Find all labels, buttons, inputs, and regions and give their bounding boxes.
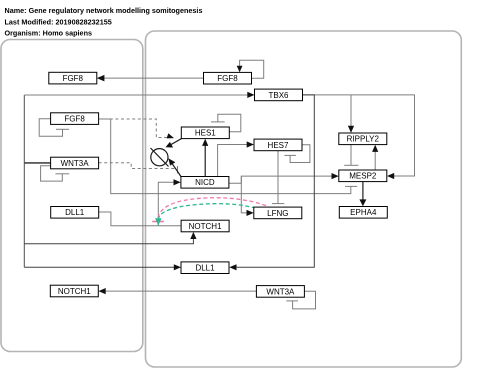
svg-text:DLL1: DLL1: [195, 264, 215, 273]
wire NICD to LFNG: [241, 176, 253, 216]
svg-text:FGF8: FGF8: [64, 115, 85, 124]
wire HES7 inhibition of LFNG: [272, 151, 284, 204]
title text Organism: [5, 29, 93, 38]
svg-text:Organism: Homo sapiens: Organism: Homo sapiens: [5, 29, 93, 38]
wire trunk to NOTCH1 bottom: [24, 232, 196, 244]
gene box FGF8 top-left: [49, 72, 97, 84]
svg-text:RIPPLY2: RIPPLY2: [347, 135, 380, 144]
wire NICD to HES1: [202, 139, 208, 177]
gene box EPHA4: [339, 207, 387, 219]
svg-text:HES7: HES7: [268, 141, 289, 150]
wire DLL1(left) to NOTCH1: [99, 212, 181, 226]
wire LFNG pink dashed inhibition: [152, 198, 266, 222]
gene box HES1: [181, 127, 229, 139]
wire MESP2 to EPHA4: [359, 182, 366, 207]
svg-text:NOTCH1: NOTCH1: [58, 287, 91, 296]
svg-text:WNT3A: WNT3A: [61, 159, 90, 168]
wire WNT3A(left) trunk vertical: [24, 95, 50, 267]
wire NICD to HES7: [218, 141, 254, 176]
compartment right (cell): [146, 31, 462, 367]
wire MESP2 to RIPPLY2: [372, 145, 378, 170]
gene box FGF8 top-middle: [204, 72, 252, 84]
wire HES7 self-inhibition loop: [284, 145, 310, 163]
compartment left (presomitic mesoderm): [1, 40, 143, 352]
wire RIPPLY2 inhibition of MESP2: [344, 145, 358, 166]
svg-text:EPHA4: EPHA4: [350, 208, 377, 217]
wire FGF8(mid) to FGF8(top-left): [97, 75, 204, 82]
gene box NOTCH1 bottom-left: [50, 285, 98, 297]
wire WNT3A(bottom) self-inhibition loop: [286, 291, 315, 309]
wire HES1 self-inhibition loop: [211, 114, 241, 132]
gene box LFNG: [254, 207, 302, 219]
wire TBX6 to DLL1: [229, 95, 314, 271]
degradation circle: [151, 148, 169, 167]
svg-text:NICD: NICD: [195, 178, 215, 187]
svg-text:LFNG: LFNG: [267, 209, 288, 218]
svg-text:HES1: HES1: [195, 129, 216, 138]
gene box MESP2: [339, 170, 387, 182]
svg-text:MESP2: MESP2: [349, 172, 377, 181]
gene box WNT3A left: [51, 157, 99, 169]
svg-text:WNT3A: WNT3A: [266, 287, 295, 296]
wire FGF8(left) long inhibition to MESP2: [99, 119, 358, 194]
wire NICD to MESP2: [229, 173, 339, 183]
gene box HES7: [254, 139, 302, 151]
svg-text:DLL1: DLL1: [65, 208, 85, 217]
gene box RIPPLY2: [339, 133, 387, 145]
wire WNT3A(left) dashed inhibition of NICD-degradation edge: [99, 163, 178, 174]
title text Name: [5, 6, 203, 15]
svg-text:TBX6: TBX6: [268, 91, 289, 100]
svg-text:Name: Gene regulatory network: Name: Gene regulatory network modelling …: [5, 6, 203, 15]
svg-text:FGF8: FGF8: [217, 74, 238, 83]
wire NICD to degradation: [168, 158, 181, 176]
wire anchor to NICD: [158, 179, 180, 226]
wire WNT3A(bottom) to NOTCH1(bottom-left): [99, 288, 257, 294]
gene box NOTCH1 middle: [181, 220, 229, 232]
gene box DLL1 left: [51, 207, 99, 219]
wire WNT3A(left) self-inhibition loop: [41, 166, 70, 181]
gene box DLL1 bottom: [181, 262, 229, 274]
wire trunk to DLL1 left: [24, 264, 181, 270]
svg-text:Last Modified: 20190828232155: Last Modified: 20190828232155: [5, 17, 112, 26]
wire FGF8(left) self-inhibition loop: [39, 119, 69, 137]
title text Last Modified: [5, 17, 112, 26]
wire TBX6 to RIPPLY2: [348, 95, 354, 133]
wire LFNG green dashed stimulation: [155, 204, 262, 226]
gene box NICD: [181, 177, 229, 189]
gene box WNT3A bottom: [256, 286, 304, 298]
wire FGF8(mid) self-activation loop: [237, 60, 264, 78]
wire TBX6 to MESP2 (right loop): [303, 95, 415, 179]
gene box FGF8 left: [51, 113, 99, 125]
wire HES1 to degradation: [166, 139, 182, 148]
wire FGF8(left) dashed regulation to HES1-degradation edge: [99, 119, 174, 138]
wire trunk to TBX6: [24, 92, 254, 98]
gene box TBX6: [255, 89, 303, 101]
svg-text:NOTCH1: NOTCH1: [189, 222, 222, 231]
svg-text:FGF8: FGF8: [63, 74, 84, 83]
